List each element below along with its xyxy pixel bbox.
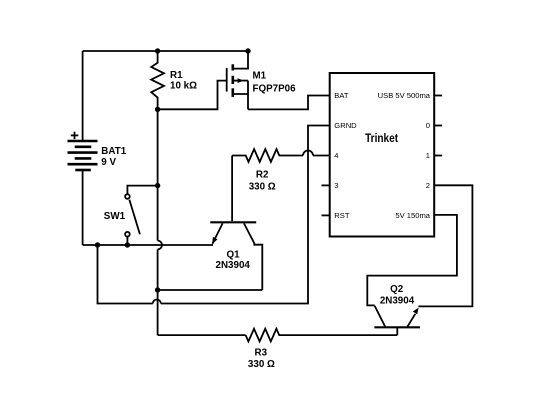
- resistor R3: [246, 329, 398, 342]
- pin USB5V stub: [434, 95, 442, 97]
- svg-text:Q1: Q1: [226, 250, 240, 261]
- svg-text:R1: R1: [170, 70, 183, 81]
- wire Q2 base stem: [396, 327, 398, 335]
- svg-text:RST: RST: [334, 211, 350, 220]
- node SW1 bottom / bottom rail: [125, 242, 130, 247]
- node GRND / bottom rail: [95, 242, 100, 247]
- wire Q2 collector to Trinket 5V150ma pin: [367, 215, 457, 306]
- svg-text:USB 5V 500ma: USB 5V 500ma: [378, 91, 431, 100]
- node Q1 collector / R3 branch: [155, 287, 160, 292]
- wire R3 branch down and R3 left lead: [158, 334, 246, 336]
- wire GRND net: from bottom rail down, across (hop over x=157.6), up to GRND pin: [98, 245, 153, 304]
- svg-text:Q2: Q2: [390, 284, 404, 295]
- svg-text:0: 0: [426, 121, 430, 130]
- svg-text:R2: R2: [256, 170, 269, 181]
- battery BAT1: [68, 141, 98, 170]
- svg-text:10 kΩ: 10 kΩ: [170, 81, 197, 92]
- transistor Q2 2N3904: [374, 306, 420, 327]
- svg-text:M1: M1: [253, 71, 267, 82]
- IC U1 Trinket box: [330, 73, 435, 237]
- wire left rail battery+: [82, 51, 84, 141]
- battery + sign: [71, 132, 79, 139]
- pin RST stub: [322, 214, 330, 216]
- svg-text:330 Ω: 330 Ω: [249, 182, 276, 193]
- resistor R2 with leads; pin-4 wire hops over GRND vertical: [232, 149, 303, 162]
- wire bottom-left rail (battery- to Q1 emitter): [83, 244, 213, 246]
- svg-text:SW1: SW1: [104, 211, 126, 222]
- resistor R1: [151, 51, 164, 109]
- node top rail / R1: [155, 48, 160, 53]
- svg-text:5V 150ma: 5V 150ma: [395, 211, 430, 220]
- wire M1 gate to R1 bottom: [158, 81, 227, 110]
- pin 1 stub: [434, 155, 442, 157]
- svg-text:FQP7P06: FQP7P06: [253, 84, 297, 95]
- wire M1 source to Trinket BAT pin: [248, 96, 330, 110]
- svg-text:2: 2: [426, 181, 430, 190]
- svg-text:3: 3: [334, 181, 338, 190]
- pin 0 stub: [434, 125, 442, 127]
- svg-text:GRND: GRND: [334, 121, 357, 130]
- pin 3 stub: [322, 184, 330, 186]
- svg-text:BAT: BAT: [334, 91, 349, 100]
- svg-text:330 Ω: 330 Ω: [248, 359, 275, 370]
- wire R1/SW1/R3 branch vertical (with hop at y=245): [157, 109, 159, 241]
- svg-text:Trinket: Trinket: [365, 132, 398, 145]
- wire Q2 emitter to Trinket pin 2: [418, 185, 472, 306]
- transistor Q1 2N3904: [210, 222, 262, 290]
- svg-text:1: 1: [426, 151, 430, 160]
- wire Q1 collector bottom to R3 branch: [158, 289, 263, 291]
- wire R2 left lead down to Q1 base: [231, 156, 233, 222]
- svg-text:2N3904: 2N3904: [380, 295, 415, 306]
- svg-text:BAT1: BAT1: [101, 146, 126, 157]
- switch SW1: [125, 186, 158, 245]
- wire battery- down to bottom rail: [82, 170, 84, 245]
- transistor M1 FQP7P06 (P-MOSFET): [227, 51, 248, 109]
- svg-text:4: 4: [334, 151, 338, 160]
- svg-text:2N3904: 2N3904: [216, 260, 251, 271]
- node SW1 top: [155, 183, 160, 188]
- node top rail / M1 drain: [245, 48, 250, 53]
- svg-text:R3: R3: [255, 348, 268, 359]
- node R1 bottom / gate: [155, 107, 160, 112]
- svg-text:9 V: 9 V: [101, 157, 116, 168]
- wire top rail from battery+ to M1 drain: [83, 50, 248, 52]
